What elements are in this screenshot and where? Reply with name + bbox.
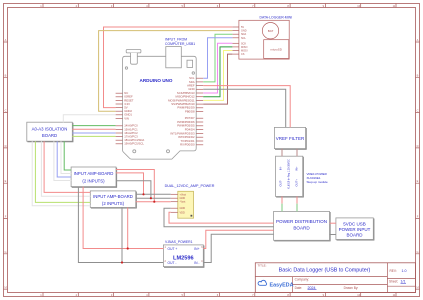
power distribution board [274, 211, 330, 240]
junction -Vout rail [153, 201, 155, 203]
VREF power step-up module [276, 156, 303, 196]
wire 5V arduino to data logger [104, 27, 233, 108]
wire GND power distribution to usb input board [330, 234, 336, 236]
wire step-up OUT- to power distribution [281, 196, 283, 203]
wire isolation board to amp board 1 input 2 [61, 141, 71, 173]
svg-text:D: D [5, 144, 7, 148]
svg-text:A: A [417, 38, 419, 42]
svg-text:DUAL_12VDC_AMP_POWER: DUAL_12VDC_AMP_POWER [165, 184, 215, 188]
svg-text:Basic Data Logger (USB to Comp: Basic Data Logger (USB to Computer) [279, 268, 371, 274]
svg-text:19/A5/PC5/SCL: 19/A5/PC5/SCL [124, 142, 144, 146]
wire SDA [203, 34, 232, 82]
svg-text:E: E [417, 179, 419, 183]
svg-text:1/1: 1/1 [401, 280, 406, 284]
svg-text:OUT +: OUT + [168, 247, 178, 251]
wire A0 isolation board to pin 14/A0 [72, 125, 115, 127]
svg-text:2024: 2024 [308, 286, 316, 290]
wire +Vout amp board 2 to supply module [136, 193, 171, 195]
svg-text:C: C [5, 109, 7, 113]
svg-text:TITLE:: TITLE: [258, 263, 267, 267]
svg-text:REV:: REV: [390, 269, 397, 273]
EasyEDA logo [258, 280, 267, 285]
svg-text:Sheet:: Sheet: [389, 280, 398, 284]
data logger mini module [239, 20, 289, 59]
junction +Vout rail [142, 193, 144, 195]
Arduino USB connector [166, 47, 182, 68]
svg-text:microSD: microSD [270, 48, 282, 52]
wire GND arduino to data logger [99, 31, 233, 112]
wire A3 isolation board to pin 17/A3 [72, 135, 115, 137]
svg-text:C: C [417, 109, 419, 113]
wire A2 isolation board to pin 16/A2 [72, 132, 115, 134]
svg-text:COMPUTER_USB1: COMPUTER_USB1 [165, 42, 195, 46]
LM2596 IN- to power distribution [203, 234, 273, 262]
svg-text:(2 INPUTS): (2 INPUTS) [102, 201, 125, 206]
wire amp board 1 to GND rail [116, 181, 151, 199]
wire SCK D13 [203, 43, 232, 93]
svg-text:OUT -: OUT - [168, 261, 177, 265]
wire supply module GND to power distribution [164, 208, 274, 227]
wire MOSI D11 [203, 51, 232, 101]
svg-text:VDD: VDD [180, 211, 185, 214]
svg-text:SDA: SDA [241, 33, 246, 36]
wire GND amp board 2 to supply module [136, 197, 171, 199]
input amp board 2 [90, 191, 135, 208]
svg-text:BOARD: BOARD [42, 133, 57, 138]
wire GND to vref filter [203, 89, 286, 127]
Arduino mounting holes [125, 67, 127, 69]
wire -Vout amp board 2 to supply module [136, 201, 171, 203]
svg-text:Step-up module: Step-up module [307, 180, 329, 184]
wire amp board 2 to LM2596 OUT+ [127, 207, 129, 248]
svg-text:INPUT AMP-BOARD: INPUT AMP-BOARD [74, 171, 114, 176]
svg-text:Company:: Company: [295, 277, 310, 281]
svg-text:EasyEDA: EasyEDA [270, 282, 294, 288]
wire supply module VDD to power distribution [169, 212, 274, 223]
wire GND1 arduino to isolation board [63, 115, 115, 122]
wire amp board 1 to LM2596 OUT- [78, 187, 163, 263]
svg-text:GND: GND [241, 30, 247, 33]
data logger pins [232, 26, 239, 28]
wire amp board 1 to LM2596 OUT+ [83, 187, 163, 249]
svg-text:A: A [5, 38, 7, 42]
svg-text:XL6019 In-Reg 1.25-30VDC: XL6019 In-Reg 1.25-30VDC [288, 159, 291, 189]
wire isolation board to amp board 2 input 4 [32, 141, 90, 206]
svg-text:BOARD: BOARD [346, 233, 363, 238]
junction OUT+ rail [127, 247, 129, 249]
BAT circle [262, 23, 278, 39]
DUAL_12VDC_AMP_POWER module [178, 191, 194, 218]
svg-text:B: B [5, 73, 7, 77]
svg-text:D: D [417, 144, 419, 148]
Arduino power jack [126, 50, 141, 53]
svg-text:1.0: 1.0 [402, 269, 407, 273]
svg-text:5VDC USB: 5VDC USB [343, 221, 366, 226]
svg-text:IN -: IN - [194, 261, 199, 265]
svg-text:A0-A3 ISOLATION: A0-A3 ISOLATION [32, 126, 68, 131]
microSD box [264, 40, 289, 59]
svg-text:POWER DISTRIBUTION: POWER DISTRIBUTION [276, 219, 327, 224]
svg-text:G: G [416, 250, 418, 254]
Arduino right pins group 2 [196, 117, 203, 119]
svg-text:MISO: MISO [241, 46, 247, 49]
wire isolation board to amp board 1 input 3 [57, 141, 71, 177]
svg-text:-Vout: -Vout [180, 201, 186, 204]
junction GND rail [150, 197, 152, 199]
svg-text:G: G [4, 250, 6, 254]
wire 5V power distribution to usb input board [330, 222, 336, 224]
svg-text:ARDUINO UNO: ARDUINO UNO [140, 78, 173, 83]
svg-text:VIN: VIN [124, 116, 129, 120]
svg-text:H: H [417, 285, 419, 289]
wire amp board 1 to -Vout rail [116, 170, 154, 202]
wire amp board 2 to LM2596 OUT- [121, 207, 123, 262]
svg-text:Drawn By:: Drawn By: [344, 286, 359, 290]
svg-text:OUT+: OUT+ [295, 179, 299, 187]
svg-text:BAT: BAT [268, 29, 274, 33]
svg-text:VREF FILTER: VREF FILTER [276, 136, 305, 141]
input amp board 1 [71, 167, 116, 187]
svg-text:Date:: Date: [295, 286, 303, 290]
svg-text:DATA-LOGGER-MINI: DATA-LOGGER-MINI [260, 16, 293, 20]
svg-text:OUT-: OUT- [279, 180, 283, 187]
VREF filter board [274, 127, 305, 148]
svg-text:PB0/D8: PB0/D8 [185, 109, 195, 113]
wire CS D10 [203, 54, 232, 104]
svg-text:IN-: IN- [279, 166, 283, 170]
Arduino left pins group 1 [116, 92, 123, 94]
svg-text:SCL: SCL [241, 37, 246, 40]
title block [255, 263, 415, 293]
A0-A3 isolation board [27, 122, 73, 141]
wire amp board 1 to +Vout rail [116, 173, 144, 194]
Arduino right pins group 1 [196, 77, 203, 79]
svg-text:RX/PD0/D0: RX/PD0/D0 [180, 143, 195, 147]
svg-text:SCK: SCK [241, 42, 246, 45]
svg-text:GND: GND [180, 207, 186, 210]
svg-text:5V: 5V [241, 26, 244, 29]
svg-text:IN+: IN+ [295, 166, 299, 171]
svg-text:MOSI: MOSI [241, 50, 248, 53]
svg-text:INPUT AMP-BOARD: INPUT AMP-BOARD [93, 194, 133, 199]
svg-text:H: H [5, 285, 7, 289]
svg-text:+Vout: +Vout [180, 193, 187, 196]
wire isolation board to amp board 1 input 4 [54, 141, 71, 180]
wire vref filter to step-up module IN- [281, 149, 283, 157]
LM2596 buck module V-BIAS_POWER1 [163, 245, 203, 267]
svg-text:CS: CS [241, 53, 245, 56]
wire isolation board to amp board 2 input 2 [41, 141, 90, 196]
Arduino left pins group 2 (analog) [116, 125, 123, 127]
svg-text:IN+: IN+ [194, 247, 199, 251]
svg-text:B: B [417, 73, 419, 77]
svg-text:E: E [5, 179, 7, 183]
svg-text:(2 INPUTS): (2 INPUTS) [82, 179, 105, 184]
wire isolation board to amp board 1 input 1 [64, 141, 71, 170]
LM2596 IN+ to power distribution [203, 230, 273, 248]
wire vref filter to step-up module IN+ [296, 149, 298, 157]
Arduino UNO board outline U1 [123, 56, 197, 159]
wire isolation board to amp board 2 input 1 [44, 141, 90, 192]
svg-text:BOARD: BOARD [293, 226, 310, 231]
junction OUT- rail [121, 261, 123, 263]
svg-text:V-BIAS_POWER1: V-BIAS_POWER1 [165, 240, 193, 244]
wire A1 isolation board to pin 15/A1 [72, 128, 115, 130]
wire AREF to vref filter [203, 86, 290, 128]
wire isolation board to amp board 2 input 3 [35, 141, 90, 202]
svg-text:POWER INPUT: POWER INPUT [339, 227, 371, 232]
wire MISO D12 [203, 47, 232, 97]
wire step-up OUT+ to power distribution [296, 196, 298, 203]
5VDC USB power input board [336, 218, 373, 240]
wire SCL [203, 38, 232, 78]
